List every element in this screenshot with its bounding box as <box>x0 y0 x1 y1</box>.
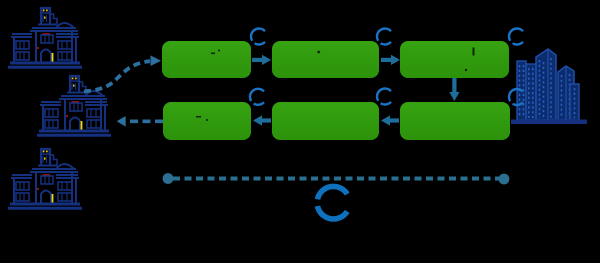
tower left2 <box>526 64 536 120</box>
building icon 3 (bottom-left institution) <box>8 149 82 208</box>
city baseline <box>511 120 587 125</box>
refresh icon box4 <box>250 89 264 105</box>
solid arrow box5→box4 (left) <box>253 115 271 125</box>
solid arrow box2→box3 <box>381 55 400 65</box>
solid arrow box1→box2 <box>252 55 271 65</box>
refresh icon box2 <box>377 29 391 45</box>
building icon 2 (middle-left institution) <box>37 76 111 135</box>
solid arrow box6→box5 (left) <box>381 115 399 125</box>
green box row1 col1 <box>162 41 251 78</box>
tower tall center <box>536 49 556 120</box>
green box row2 col1 <box>163 102 251 140</box>
tower far-right <box>570 84 579 120</box>
faint text remnant marks <box>196 48 475 122</box>
refresh icon box3 <box>509 29 523 45</box>
green box row1 col3 <box>400 41 509 78</box>
sync icon bottom center <box>317 186 347 219</box>
endpoint dot right <box>499 174 510 185</box>
green box row2 col3 <box>400 102 510 140</box>
dashed arrow box4→building2 (left) <box>126 119 163 123</box>
dashed arrow building1→box1 (curved) <box>84 61 150 91</box>
city skyline icon (right) <box>511 49 587 124</box>
tower far-left <box>517 61 526 120</box>
refresh icon box1 <box>251 29 265 45</box>
endpoint dot left <box>163 173 174 184</box>
refresh icon box5 <box>377 89 391 105</box>
green box row1 col2 <box>272 41 379 78</box>
refresh icon box6 <box>509 89 523 105</box>
dashed feedback line bottom <box>173 177 499 181</box>
building icon 1 (top-left institution) <box>8 8 82 67</box>
tower right <box>558 66 574 120</box>
solid arrow box3→box6 (down) <box>449 78 459 101</box>
green box row2 col2 <box>272 102 379 140</box>
